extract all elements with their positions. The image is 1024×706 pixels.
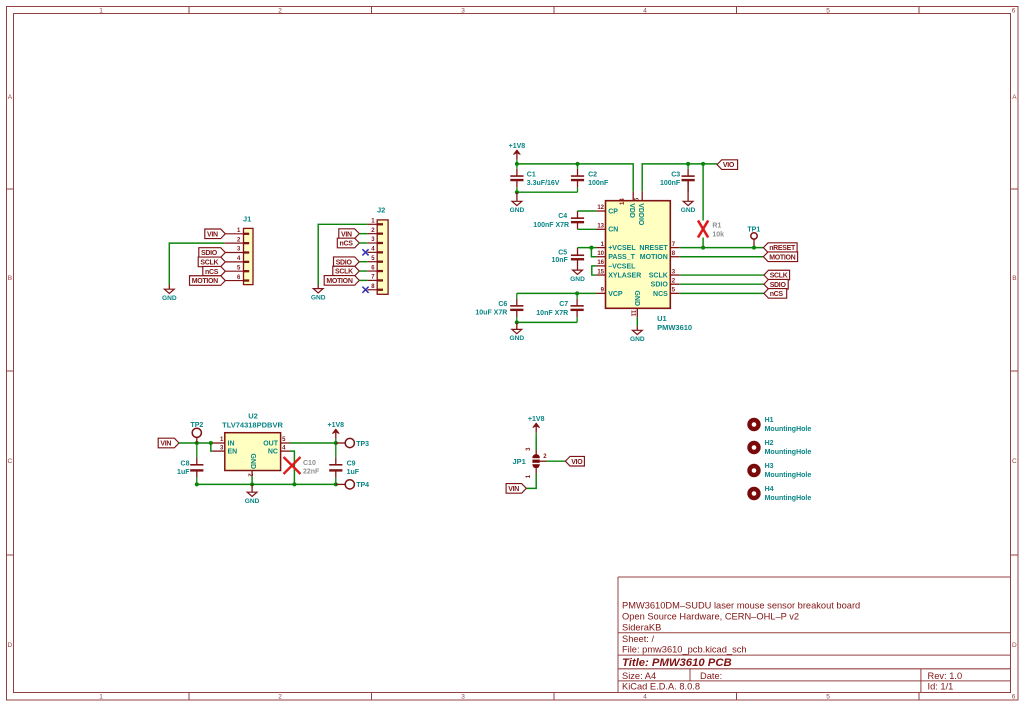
svg-text:100nF: 100nF [660, 180, 681, 187]
svg-text:1: 1 [237, 228, 241, 234]
svg-text:C10: C10 [303, 460, 316, 467]
ground (J1) [162, 285, 177, 302]
svg-text:nCS: nCS [205, 269, 219, 276]
svg-text:CN: CN [608, 227, 618, 234]
svg-text:C2: C2 [588, 172, 597, 179]
wire nRESET net [680, 247, 764, 249]
wire JP1 pin1 to VIN [526, 468, 536, 488]
svg-text:14: 14 [620, 198, 626, 205]
wire J2 pin1 to GND [318, 224, 367, 285]
wire VIN to U2 [179, 442, 212, 444]
svg-text:VIN: VIN [508, 486, 519, 493]
wire U1 GND pin11 [636, 318, 638, 327]
power +1V8 (JP1) [528, 416, 545, 437]
svg-text:8: 8 [672, 251, 676, 257]
svg-text:U2: U2 [248, 412, 258, 421]
label SDIO (J2 pin5) [334, 257, 368, 267]
ground (U1) [630, 326, 645, 343]
svg-text:nCS: nCS [340, 241, 354, 248]
capacitor C9 [329, 443, 360, 484]
svg-text:10uF X7R: 10uF X7R [475, 310, 507, 317]
svg-text:2: 2 [672, 278, 676, 284]
wire +1V8 rail to VDD [517, 164, 633, 191]
wire C6-C7 bottom [517, 321, 577, 323]
capacitor C8 [177, 443, 203, 484]
wire CN pin13 [578, 228, 597, 230]
svg-text:EN: EN [228, 449, 238, 456]
jumper JP1 [512, 447, 547, 478]
svg-text:2: 2 [543, 454, 547, 460]
svg-text:4: 4 [643, 7, 647, 14]
power +1V8 (near C1) [509, 143, 526, 164]
svg-text:1: 1 [99, 7, 103, 14]
wire NC to C10 [290, 451, 294, 484]
svg-text:J1: J1 [243, 215, 251, 224]
svg-text:B: B [8, 275, 12, 282]
svg-text:C9: C9 [347, 460, 356, 467]
svg-text:+1V8: +1V8 [528, 416, 545, 423]
svg-text:D: D [1012, 642, 1017, 649]
svg-text:SDIO: SDIO [336, 259, 353, 266]
svg-text:A: A [8, 94, 13, 101]
svg-text:GND: GND [311, 294, 326, 301]
label VIN (J2 pin2) [339, 229, 368, 239]
junction R1/nRESET [701, 246, 705, 250]
svg-text:VIN: VIN [207, 231, 218, 238]
label nCS (J1 pin5) [203, 266, 226, 276]
wire MOTION net [680, 256, 764, 258]
svg-text:6: 6 [237, 275, 241, 281]
junction VIO/R1 [701, 162, 705, 166]
label VIN (JP1) [506, 484, 526, 494]
svg-text:SCLK: SCLK [200, 259, 218, 266]
svg-text:2: 2 [278, 694, 282, 701]
svg-text:+1V8: +1V8 [509, 143, 526, 150]
svg-text:TLV74318PDBVR: TLV74318PDBVR [222, 420, 283, 429]
wire R1 top [702, 164, 704, 221]
power +1V8 (U2) [328, 422, 345, 443]
capacitor C10 (DNP) [284, 457, 321, 476]
junction C6 bottom [515, 320, 519, 324]
svg-text:3: 3 [371, 237, 375, 243]
svg-text:10k: 10k [712, 231, 724, 238]
svg-text:Date:: Date: [700, 671, 722, 681]
ground (J2) [311, 285, 326, 301]
label nCS (U1) [764, 289, 787, 299]
svg-text:JP1: JP1 [512, 457, 525, 466]
frame row letters [8, 94, 1018, 649]
junction C3 top [686, 162, 690, 166]
svg-text:Id: 1/1: Id: 1/1 [928, 682, 954, 692]
svg-text:100nF: 100nF [588, 180, 609, 187]
svg-text:C5: C5 [558, 249, 567, 256]
svg-text:16: 16 [597, 260, 604, 266]
svg-text:C3: C3 [671, 172, 680, 179]
wire PASS_T branch [591, 248, 596, 257]
svg-text:10nF: 10nF [551, 257, 568, 264]
svg-text:nCS: nCS [770, 291, 784, 298]
junction rail C10 [292, 482, 296, 486]
svg-text:C: C [8, 458, 13, 465]
svg-text:MOTION: MOTION [769, 254, 795, 261]
svg-text:MountingHole: MountingHole [765, 495, 812, 502]
svg-text:VIN: VIN [160, 441, 171, 448]
svg-text:Sheet: /: Sheet: / [622, 634, 654, 644]
junction rail C9 [334, 482, 338, 486]
svg-text:1: 1 [526, 474, 532, 478]
svg-text:13: 13 [597, 224, 604, 230]
wire R1 bottom [702, 238, 704, 248]
svg-text:3: 3 [461, 7, 465, 14]
svg-text:VIO: VIO [571, 459, 583, 466]
svg-text:100nF X7R: 100nF X7R [533, 222, 569, 229]
junction rail C8 [195, 482, 199, 486]
svg-text:OUT: OUT [263, 440, 279, 447]
mounting hole H2 [747, 440, 811, 456]
no-connect J2 pin4 [362, 249, 368, 255]
svg-text:7: 7 [371, 275, 375, 281]
svg-text:XYLASER: XYLASER [608, 272, 641, 279]
svg-text:6: 6 [635, 197, 641, 201]
svg-text:R1: R1 [712, 223, 721, 230]
svg-text:GND: GND [249, 453, 256, 469]
label VIO (top) [717, 160, 738, 170]
svg-text:3.3uF/16V: 3.3uF/16V [527, 180, 560, 187]
svg-text:Rev: 1.0: Rev: 1.0 [928, 671, 963, 681]
svg-text:2: 2 [278, 7, 282, 14]
svg-text:SideraKB: SideraKB [622, 623, 661, 633]
ground (C3) [681, 181, 696, 215]
svg-text:+1V8: +1V8 [328, 422, 345, 429]
svg-text:3: 3 [461, 694, 465, 701]
svg-text:C4: C4 [558, 213, 567, 220]
svg-text:1: 1 [99, 694, 103, 701]
label SCLK (J2 pin6) [333, 266, 368, 276]
svg-text:4: 4 [371, 247, 375, 253]
label SDIO (U1) [764, 279, 788, 289]
capacitor C5 [551, 248, 584, 267]
junction C2 top [576, 162, 580, 166]
wire SCLK net [680, 274, 764, 276]
svg-text:5: 5 [237, 265, 241, 271]
test point TP1 [747, 227, 760, 248]
junction TP1/nRESET [752, 246, 756, 250]
svg-text:PMW3610DM–SUDU laser mouse sen: PMW3610DM–SUDU laser mouse sensor breako… [622, 601, 860, 611]
junction TP2/C8 [195, 441, 199, 445]
svg-text:3: 3 [526, 447, 532, 451]
junction C7 top [575, 291, 579, 295]
svg-text:MOTION: MOTION [640, 254, 668, 261]
junction +VCSEL/PASS_T [589, 246, 593, 250]
svg-text:D: D [8, 642, 13, 649]
svg-text:J2: J2 [377, 206, 385, 215]
svg-text:NRESET: NRESET [639, 245, 668, 252]
junction +1V8/C1 [515, 162, 519, 166]
test point TP3 [336, 438, 369, 447]
svg-text:Title: PMW3610 PCB: Title: PMW3610 PCB [622, 657, 732, 669]
no-connect J2 pin8 [362, 287, 368, 293]
svg-text:22nF: 22nF [303, 469, 320, 476]
junction EN branch [209, 441, 213, 445]
regulator U2 body TLV74318PDBVR [212, 412, 290, 478]
svg-text:5: 5 [826, 694, 830, 701]
svg-text:+VCSEL: +VCSEL [608, 245, 636, 252]
svg-text:C8: C8 [181, 460, 190, 467]
wire J1 pin2 to GND [169, 243, 224, 285]
svg-text:6: 6 [1012, 694, 1016, 701]
wire U2 ground rail [197, 483, 336, 485]
label VIN (J1 pin1) [205, 229, 226, 239]
svg-text:3: 3 [220, 445, 224, 451]
svg-text:H2: H2 [765, 440, 774, 447]
svg-text:TP1: TP1 [747, 227, 760, 234]
connector J1 [224, 215, 253, 285]
svg-text:2: 2 [237, 237, 241, 243]
svg-text:7: 7 [672, 242, 676, 248]
svg-text:SDIO: SDIO [201, 250, 218, 257]
test point TP2 [190, 422, 203, 443]
title block [618, 577, 1011, 693]
svg-text:11: 11 [630, 310, 636, 317]
junction C1 bottom [515, 190, 519, 194]
junction rail GND [250, 482, 254, 486]
ground (U2) [245, 484, 260, 505]
wire nCS net [680, 292, 764, 294]
label SCLK (U1) [764, 270, 790, 280]
capacitor C3 [660, 164, 695, 192]
svg-text:PASS_T: PASS_T [608, 254, 635, 261]
label MOTION (J1 pin6) [190, 276, 226, 286]
svg-text:1: 1 [220, 437, 224, 443]
svg-text:nRESET: nRESET [769, 245, 796, 252]
label VIN (U2) [158, 438, 179, 448]
wire C1-C2 bottom [517, 191, 578, 193]
svg-text:SCLK: SCLK [335, 269, 353, 276]
wire SDIO net [680, 283, 764, 285]
svg-text:MOTION: MOTION [326, 278, 352, 285]
svg-text:1uF: 1uF [177, 469, 190, 476]
svg-text:5: 5 [371, 256, 375, 262]
svg-text:VDD: VDD [628, 203, 635, 218]
op-amp U1 body PMW3610 [596, 191, 692, 331]
svg-text:PMW3610: PMW3610 [657, 323, 692, 332]
wire OUT net [290, 442, 336, 444]
svg-text:B: B [1012, 275, 1016, 282]
svg-text:C7: C7 [559, 301, 568, 308]
svg-text:1: 1 [371, 219, 375, 225]
svg-text:C6: C6 [498, 301, 507, 308]
label VIO (JP1) [565, 456, 584, 466]
svg-text:IN: IN [228, 440, 235, 447]
ground (C5) [570, 267, 585, 283]
svg-text:KiCad E.D.A. 8.0.8: KiCad E.D.A. 8.0.8 [622, 682, 700, 692]
svg-text:VIO: VIO [723, 162, 735, 169]
connector J2 [367, 206, 388, 295]
svg-text:9: 9 [601, 288, 605, 294]
capacitor C1 [510, 164, 560, 192]
svg-text:C1: C1 [527, 172, 536, 179]
wire +VCSEL pin1 [578, 247, 597, 249]
svg-text:SDIO: SDIO [770, 282, 787, 289]
svg-text:H4: H4 [765, 486, 774, 493]
svg-text:NC: NC [268, 449, 278, 456]
svg-text:–VCSEL: –VCSEL [608, 263, 636, 270]
svg-text:VCP: VCP [608, 291, 623, 298]
svg-text:GND: GND [245, 498, 260, 505]
svg-text:2: 2 [371, 228, 375, 234]
svg-text:Size: A4: Size: A4 [622, 671, 656, 681]
svg-text:VDDIO: VDDIO [637, 203, 644, 226]
svg-text:Open Source Hardware, CERN–OHL: Open Source Hardware, CERN–OHL–P v2 [622, 612, 799, 622]
resistor R1 (DNP) [698, 221, 724, 239]
svg-text:10nF X7R: 10nF X7R [536, 310, 568, 317]
capacitor C7 [536, 293, 583, 322]
svg-text:MountingHole: MountingHole [765, 426, 812, 433]
svg-text:4: 4 [237, 256, 241, 262]
wire EN branch [211, 443, 213, 451]
svg-text:SCLK: SCLK [649, 272, 668, 279]
svg-text:TP2: TP2 [190, 422, 203, 429]
svg-text:8: 8 [371, 284, 375, 290]
svg-text:GND: GND [630, 336, 645, 343]
svg-text:GND: GND [509, 335, 524, 342]
svg-text:10: 10 [597, 251, 604, 257]
svg-text:1: 1 [601, 242, 605, 248]
capacitor C4 [533, 211, 584, 229]
label MOTION (J2 pin7) [324, 276, 367, 286]
svg-text:NCS: NCS [653, 291, 668, 298]
ground (C1) [510, 192, 525, 214]
label MOTION (U1) [763, 252, 797, 262]
svg-text:3: 3 [672, 269, 676, 275]
label SCLK (J1 pin4) [198, 257, 225, 267]
svg-text:MOTION: MOTION [192, 278, 218, 285]
junction OUT/+1V8/C9/TP3 [334, 441, 338, 445]
svg-text:5: 5 [282, 437, 286, 443]
svg-text:TP3: TP3 [356, 441, 369, 448]
svg-text:6: 6 [1012, 7, 1016, 14]
svg-text:C: C [1012, 458, 1017, 465]
svg-text:12: 12 [597, 205, 604, 211]
wire VDDIO rail to VIO [642, 164, 717, 191]
wire U2 GND pin2 [251, 476, 253, 484]
svg-text:5: 5 [672, 288, 676, 294]
wire JP1 pin2 to VIO [540, 460, 566, 462]
ground (C6) [509, 322, 524, 342]
svg-text:6: 6 [371, 265, 375, 271]
svg-text:H3: H3 [765, 463, 774, 470]
mounting hole H4 [747, 486, 811, 502]
wire JP1 pin3 [535, 437, 537, 455]
svg-text:15: 15 [597, 269, 604, 275]
mounting hole H1 [747, 417, 811, 433]
wire -VCSEL/XYLASER tie [592, 266, 596, 275]
svg-text:SDIO: SDIO [651, 282, 669, 289]
svg-text:VIN: VIN [341, 231, 352, 238]
wire CP pin12 [578, 210, 597, 212]
svg-text:File: pmw3610_pcb.kicad_sch: File: pmw3610_pcb.kicad_sch [622, 644, 747, 654]
capacitor C6 [475, 293, 523, 322]
svg-text:A: A [1012, 94, 1017, 101]
label SDIO (J1 pin3) [199, 248, 226, 258]
svg-text:CP: CP [608, 208, 618, 215]
svg-text:H1: H1 [765, 417, 774, 424]
test point TP4 [336, 480, 369, 489]
capacitor C2 [571, 164, 609, 192]
label nCS (J2 pin3) [337, 238, 367, 248]
wire VCP pin9 [517, 292, 596, 294]
svg-text:SCLK: SCLK [770, 273, 788, 280]
svg-text:GND: GND [681, 207, 696, 214]
svg-text:GND: GND [633, 290, 640, 306]
svg-text:MountingHole: MountingHole [765, 472, 812, 479]
label nRESET [763, 243, 797, 253]
svg-text:TP4: TP4 [356, 482, 369, 489]
mounting hole H3 [747, 463, 811, 479]
svg-text:4: 4 [643, 694, 647, 701]
svg-text:3: 3 [237, 247, 241, 253]
svg-text:GND: GND [570, 276, 585, 283]
svg-text:MountingHole: MountingHole [765, 449, 812, 456]
svg-text:GND: GND [510, 207, 525, 214]
svg-text:4: 4 [282, 445, 286, 451]
svg-text:5: 5 [826, 7, 830, 14]
svg-text:1uF: 1uF [347, 469, 360, 476]
svg-text:GND: GND [162, 295, 177, 302]
